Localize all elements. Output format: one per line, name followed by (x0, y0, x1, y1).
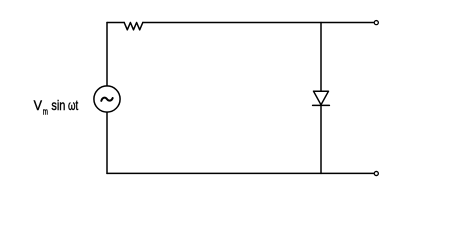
diode D1 triangle (anode) (314, 91, 329, 105)
wire left vertical lower (source bottom to corner) (106, 112, 108, 173)
wire top (resistor to top output terminal) (143, 22, 374, 24)
diode D1 cathode bar (313, 104, 330, 106)
wire left vertical upper (corner to source top) (106, 23, 108, 86)
AC source sine symbol (101, 98, 112, 101)
wire top-left (corner to resistor) (107, 22, 124, 24)
terminal top-right (open circle) (374, 21, 378, 25)
wire diode branch lower (diode cathode to bottom wire junction) (320, 105, 322, 173)
AC source V1 circle (94, 86, 120, 112)
resistor R1 (124, 23, 143, 30)
wire diode branch upper (top wire junction to diode anode) (320, 23, 322, 92)
svg-text:V m sin ωt: V m sin ωt (34, 97, 79, 118)
wire bottom (left corner to bottom output terminal) (107, 172, 374, 174)
terminal bottom-right (open circle) (374, 171, 378, 175)
